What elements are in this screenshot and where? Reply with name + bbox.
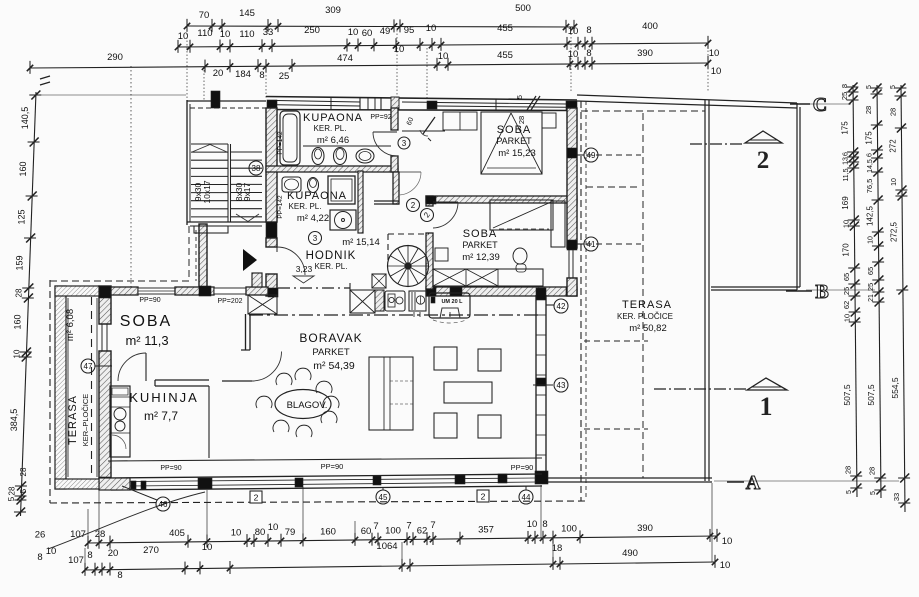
svg-text:62: 62: [417, 525, 428, 536]
svg-text:142,5: 142,5: [865, 205, 874, 226]
svg-text:384,5: 384,5: [9, 409, 19, 432]
svg-text:SOBA: SOBA: [497, 124, 532, 136]
svg-text:8: 8: [117, 570, 122, 581]
svg-text:20: 20: [213, 68, 224, 79]
table soba12: [435, 248, 448, 261]
svg-text:BLAGOV.: BLAGOV.: [287, 400, 328, 411]
svg-text:8: 8: [87, 550, 92, 561]
svg-text:5: 5: [866, 85, 873, 89]
circled 41: [584, 237, 598, 251]
armchair 4: [478, 415, 501, 438]
svg-text:60: 60: [362, 28, 373, 39]
svg-text:160: 160: [320, 526, 336, 537]
svg-text:10x17: 10x17: [202, 180, 212, 203]
svg-text:10: 10: [568, 26, 579, 37]
svg-text:1064: 1064: [376, 541, 397, 552]
extension line left: [38, 94, 186, 96]
svg-text:100: 100: [385, 526, 401, 537]
dimension chain right 2: [864, 84, 886, 499]
post north wall mid: [427, 101, 437, 109]
svg-text:45: 45: [379, 493, 388, 502]
circled 2 a: [407, 199, 420, 212]
armchair 1: [434, 347, 457, 370]
svg-text:13: 13: [843, 157, 850, 165]
svg-text:2: 2: [411, 201, 416, 210]
label kupaona lower: [287, 190, 347, 224]
svg-text:PP=142: PP=142: [277, 195, 284, 219]
svg-text:10: 10: [841, 220, 850, 228]
terrace mid dashed h: [586, 477, 643, 479]
svg-text:100: 100: [561, 524, 577, 535]
svg-text:10: 10: [220, 29, 231, 40]
svg-text:PP=90: PP=90: [160, 465, 181, 472]
svg-text:28: 28: [19, 467, 28, 476]
south wall sill line: [108, 458, 542, 461]
svg-text:28: 28: [7, 486, 16, 495]
svg-text:10: 10: [868, 236, 875, 244]
circled 3 lower: [309, 232, 322, 245]
circled 49: [584, 148, 598, 162]
circled 38: [249, 161, 263, 175]
soba2 south wall: [426, 287, 577, 296]
svg-text:25: 25: [842, 287, 851, 295]
kitchen dishwasher: [409, 291, 426, 317]
circled 2 b: [418, 206, 436, 224]
door soba11 arc: [118, 353, 146, 381]
post divider 1: [199, 286, 211, 296]
door jamb pp202: [252, 273, 262, 287]
svg-text:46: 46: [159, 500, 168, 509]
post south 2: [295, 478, 303, 487]
svg-text:1: 1: [760, 392, 773, 421]
svg-text:PP=92: PP=92: [370, 114, 391, 121]
svg-text:65: 65: [842, 273, 851, 281]
svg-text:m² 12,39: m² 12,39: [462, 252, 500, 263]
svg-text:49: 49: [380, 26, 391, 37]
svg-text:6: 6: [867, 153, 874, 157]
svg-text:500: 500: [515, 3, 531, 14]
bathroom east wall mid: [391, 156, 398, 172]
svg-text:490: 490: [622, 548, 638, 559]
armchair 3: [434, 413, 457, 438]
post NW corner: [267, 100, 277, 110]
door soba12 arc: [433, 202, 458, 228]
terrace south edge: [544, 478, 712, 482]
svg-text:10: 10: [722, 536, 733, 547]
terrace east edge: [705, 100, 709, 481]
south wall band: [111, 474, 542, 490]
closet niche line: [402, 130, 445, 132]
svg-text:184: 184: [235, 69, 251, 80]
terrace grid dash 1: [584, 340, 648, 342]
overhang south dashed: [50, 501, 585, 503]
svg-text:250: 250: [304, 25, 320, 36]
closet side wall: [241, 314, 250, 350]
north wall w6 junction: [391, 97, 399, 109]
label kupaona upper: [303, 112, 363, 146]
svg-text:270: 270: [143, 545, 159, 556]
post soba2 south e: [566, 287, 577, 296]
boxed 2 a: [250, 491, 262, 503]
svg-text:26: 26: [35, 530, 46, 541]
lintel dash line: [278, 287, 350, 289]
divider wall soba11 north: [111, 287, 138, 295]
overhang inner dashed top: [581, 110, 705, 112]
svg-text:10: 10: [438, 51, 449, 62]
sideboard: [369, 357, 413, 430]
svg-text:2: 2: [254, 493, 259, 503]
door soba15 leaf: [420, 117, 435, 141]
dimension chain top row 3: [27, 48, 721, 82]
leader 43: [533, 384, 553, 386]
door living arc: [253, 291, 291, 343]
svg-text:140,5: 140,5: [20, 107, 30, 130]
svg-text:25: 25: [279, 71, 290, 82]
svg-text:357: 357: [478, 525, 494, 536]
label kuhinja: [129, 390, 199, 423]
divider wall mid1: [175, 287, 214, 295]
svg-text:70: 70: [199, 10, 210, 21]
svg-text:m² 50,82: m² 50,82: [629, 323, 667, 334]
kitchen north wall: [155, 380, 209, 386]
post soba2 south w: [426, 287, 436, 296]
post sobas east 1: [567, 148, 577, 158]
svg-text:KUHINJA: KUHINJA: [129, 390, 199, 405]
label soba11: [120, 313, 172, 348]
dimension chain right 3: [888, 84, 910, 513]
svg-text:160: 160: [13, 314, 23, 329]
post south 3: [373, 476, 381, 485]
wc lower: [308, 178, 319, 193]
svg-text:62: 62: [842, 301, 851, 309]
svg-text:KER. PL.: KER. PL.: [314, 124, 347, 133]
north wall: [266, 97, 577, 111]
nightstand soba15 left: [443, 112, 477, 130]
svg-text:8: 8: [840, 84, 849, 88]
label soba12: [462, 228, 500, 263]
svg-text:42: 42: [557, 302, 566, 311]
svg-text:C: C: [813, 94, 827, 116]
divider door pp202: [214, 288, 246, 294]
svg-text:20: 20: [108, 548, 119, 559]
svg-text:44: 44: [522, 493, 531, 502]
svg-text:390: 390: [637, 523, 653, 534]
kitchen east line: [208, 386, 210, 458]
svg-text:3,23: 3,23: [296, 264, 313, 274]
closet by spiral: [372, 274, 386, 288]
leader 41: [577, 243, 584, 245]
circled 47: [81, 359, 95, 373]
svg-text:28: 28: [864, 106, 873, 114]
shower: [328, 176, 355, 204]
svg-text:79: 79: [285, 527, 296, 538]
svg-text:10: 10: [231, 527, 242, 538]
south wall hatch segment: [99, 478, 130, 490]
svg-text:175: 175: [840, 121, 849, 135]
post sobas divider w: [426, 196, 436, 204]
post SW corner: [99, 477, 111, 489]
svg-text:21: 21: [868, 294, 875, 302]
bathroom divider wall: [266, 166, 398, 172]
door hodnik arc: [277, 247, 305, 275]
section marker C: [790, 94, 827, 116]
svg-text:5: 5: [846, 490, 853, 494]
chair soba12: [513, 248, 527, 272]
svg-text:25: 25: [840, 92, 849, 100]
entry east wall lower: [266, 238, 277, 247]
svg-text:8: 8: [586, 48, 591, 59]
entry east wall upper: [266, 108, 277, 222]
leader 42: [546, 304, 554, 306]
bathroom east wall upper: [391, 108, 398, 130]
svg-text:65: 65: [866, 267, 875, 275]
svg-text:UM 20 L: UM 20 L: [441, 299, 463, 305]
svg-text:125: 125: [16, 209, 26, 224]
wardrobe soba12: [433, 269, 543, 286]
svg-text:m² 15,14: m² 15,14: [342, 237, 380, 248]
svg-text:KER–PLOČICE: KER–PLOČICE: [81, 394, 90, 447]
circled 42: [554, 299, 568, 313]
overhang east dashed: [581, 101, 586, 501]
circled 3 upper: [398, 137, 410, 149]
bidet: [312, 148, 324, 165]
sobas east wall lower: [567, 278, 577, 296]
svg-text:170: 170: [842, 243, 851, 257]
svg-text:m² 54,39: m² 54,39: [313, 360, 355, 372]
svg-text:TERASA: TERASA: [67, 395, 79, 445]
west wall lower: [99, 351, 111, 489]
closet south stub: [374, 201, 399, 204]
svg-text:6: 6: [843, 152, 850, 156]
rotated labels bottom-left: [19, 467, 28, 493]
post lr east mid: [536, 378, 546, 386]
svg-text:10: 10: [568, 49, 579, 60]
leader dash 41: [586, 243, 641, 245]
staircase treads: [191, 144, 262, 233]
wc upper: [334, 148, 347, 165]
svg-text:10: 10: [426, 23, 437, 34]
circled 46: [156, 497, 170, 511]
svg-text:10: 10: [178, 31, 189, 42]
section marker A: [727, 472, 761, 494]
svg-text:TERASA: TERASA: [622, 299, 672, 311]
svg-text:11,5: 11,5: [843, 168, 850, 181]
bath counter line: [303, 145, 391, 147]
left terrace south band: [55, 479, 99, 489]
left terrace north band: [55, 286, 99, 296]
svg-text:3: 3: [402, 139, 407, 148]
svg-text:474: 474: [337, 53, 353, 64]
bathroom internal wall: [358, 171, 363, 233]
terrace grid dash 2: [584, 428, 648, 430]
kitchen closet xbox: [350, 283, 375, 313]
upper terrace east edge: [797, 103, 800, 290]
label hodnik: [306, 250, 357, 271]
svg-text:10: 10: [268, 522, 279, 533]
svg-text:PARKET: PARKET: [312, 347, 350, 358]
svg-text:390: 390: [637, 48, 653, 59]
svg-text:2: 2: [481, 492, 486, 502]
svg-text:28: 28: [517, 116, 526, 124]
svg-text:10: 10: [527, 519, 538, 530]
svg-text:PP=90: PP=90: [139, 297, 160, 304]
svg-text:8: 8: [259, 70, 264, 81]
svg-text:10: 10: [348, 27, 359, 38]
overhang dashed top-left: [50, 280, 189, 282]
svg-text:5: 5: [7, 496, 16, 501]
divider window soba11: [138, 288, 175, 294]
svg-text:272,5: 272,5: [889, 221, 898, 242]
label terasa right: [617, 299, 673, 334]
svg-text:m² 11,3: m² 11,3: [125, 333, 168, 348]
overhang dashed stair edge: [189, 226, 196, 281]
svg-text:175: 175: [865, 131, 874, 145]
entry east wall below door: [266, 274, 277, 296]
svg-text:95: 95: [404, 25, 415, 36]
left terrace west band: [55, 286, 66, 489]
gallery edge line: [249, 314, 538, 316]
closet pp202: [248, 295, 277, 314]
svg-text:5: 5: [19, 488, 28, 493]
svg-text:10: 10: [709, 48, 720, 59]
bed soba15: [481, 112, 542, 174]
svg-text:455: 455: [497, 23, 513, 34]
post NE corner: [566, 101, 577, 110]
svg-text:507,5: 507,5: [842, 384, 852, 406]
svg-text:PP=90: PP=90: [321, 462, 344, 471]
extension lines top: [131, 30, 708, 288]
sobas east wall upper: [567, 108, 577, 248]
dimension chain right 1: [840, 83, 862, 498]
staircase labels: [193, 180, 252, 203]
circled 45: [376, 490, 390, 504]
svg-text:2: 2: [757, 147, 770, 174]
post SE corner: [535, 471, 548, 484]
svg-text:5: 5: [517, 95, 524, 99]
svg-text:PARKET: PARKET: [496, 136, 532, 146]
svg-text:28: 28: [844, 466, 853, 474]
leader 44 45 46: [122, 486, 526, 500]
svg-text:8: 8: [542, 519, 547, 530]
svg-text:PP=90: PP=90: [511, 463, 534, 472]
circled 43: [554, 378, 568, 392]
svg-text:110: 110: [197, 28, 212, 39]
svg-text:m² 7,7: m² 7,7: [144, 409, 178, 423]
svg-text:38: 38: [252, 164, 261, 173]
svg-text:7: 7: [406, 520, 411, 531]
dimension chain top row 1: [184, 3, 577, 33]
svg-text:272: 272: [889, 139, 898, 153]
svg-text:m² 6,46: m² 6,46: [317, 135, 349, 146]
stair block west wall: [187, 100, 190, 225]
coffee table: [444, 382, 492, 403]
leader 47: [95, 365, 112, 367]
svg-text:10: 10: [711, 66, 722, 77]
dimension chain bottom row 2: [37, 542, 730, 581]
label terasa left: [65, 309, 90, 446]
label soba15: [496, 124, 535, 159]
post entry east: [266, 222, 277, 238]
svg-text:BORAVAK: BORAVAK: [299, 331, 362, 345]
svg-text:SOBA: SOBA: [120, 313, 172, 330]
post south w1: [131, 481, 136, 489]
svg-text:107: 107: [68, 555, 84, 566]
overhang inner dashed mid: [586, 186, 641, 188]
post lr east top: [536, 288, 546, 300]
svg-text:m² 15,23: m² 15,23: [498, 148, 536, 159]
leader curve bottom-left: [48, 492, 205, 549]
svg-text:10: 10: [12, 349, 21, 358]
kitchen sink: [385, 291, 405, 311]
nightstand soba15 right: [542, 113, 556, 128]
um label: [431, 297, 463, 305]
svg-text:m² 4,22: m² 4,22: [297, 213, 329, 224]
post south 4: [455, 475, 465, 484]
svg-text:43: 43: [557, 381, 566, 390]
overhang inner dashed vertical: [642, 113, 644, 478]
washbasin upper: [356, 149, 374, 163]
svg-text:110: 110: [239, 29, 254, 40]
label 3,23: [293, 264, 314, 283]
svg-text:405: 405: [169, 528, 185, 539]
soba2 west wall lower: [426, 233, 433, 289]
bed soba12: [490, 200, 565, 247]
svg-text:80: 80: [255, 527, 266, 538]
post soba2 south mid: [450, 287, 462, 296]
post divider 2: [268, 288, 278, 297]
leader 49: [577, 154, 584, 156]
door living leaf: [222, 352, 282, 382]
entrance arrow: [243, 249, 257, 271]
left terrace dashed line: [91, 297, 93, 476]
stair block north wall: [187, 101, 266, 108]
spiral staircase: [388, 246, 429, 287]
svg-text:28: 28: [868, 467, 877, 475]
west wall upper: [99, 286, 111, 324]
svg-text:8: 8: [37, 552, 42, 563]
spiral void dashes: [388, 234, 429, 263]
upper terrace north edge: [577, 95, 797, 108]
svg-text:507,5: 507,5: [866, 384, 876, 406]
soba2 west wall upper: [426, 196, 433, 206]
svg-text:A: A: [746, 472, 761, 494]
svg-text:7: 7: [430, 520, 435, 531]
washbasin lower: [282, 177, 301, 192]
svg-text:554,5: 554,5: [890, 377, 900, 399]
dimension chain top row 2: [175, 21, 719, 59]
svg-text:KER. PL.: KER. PL.: [315, 262, 348, 271]
left terrace inner lines: [68, 298, 97, 477]
svg-text:49: 49: [587, 151, 596, 160]
overhang west dashed: [49, 280, 51, 503]
svg-text:28: 28: [888, 108, 897, 116]
svg-text:400: 400: [642, 21, 658, 32]
post sobas divider e: [567, 196, 577, 204]
svg-text:10: 10: [202, 542, 213, 553]
svg-text:33: 33: [892, 493, 901, 501]
divider wall mid2: [246, 287, 268, 295]
svg-text:9x17: 9x17: [242, 183, 252, 202]
svg-text:33: 33: [263, 27, 274, 38]
post sobas east 2: [567, 240, 577, 250]
svg-text:KER. PLOČICE: KER. PLOČICE: [617, 312, 673, 321]
leader dash 49: [586, 154, 641, 156]
svg-text:8: 8: [586, 25, 591, 36]
bathroom east wall lower: [393, 172, 399, 204]
svg-text:47: 47: [84, 362, 93, 371]
svg-text:HODNIK: HODNIK: [306, 250, 357, 262]
sobas east wall window: [567, 248, 577, 278]
